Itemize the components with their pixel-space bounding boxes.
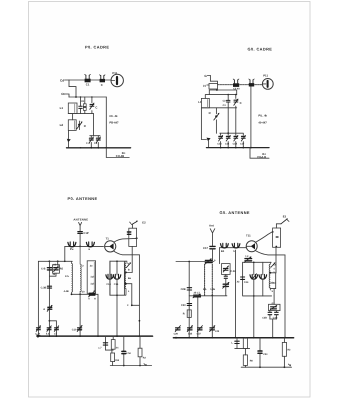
switch arm to E2 (130, 221, 138, 225)
wire to filter (273, 289, 275, 296)
svg-text:E2: E2 (283, 216, 287, 219)
capacitor C31 (275, 311, 279, 319)
svg-text:C37: C37 (197, 332, 202, 335)
node R3 (136, 237, 138, 239)
svg-text:4.4B: 4.4B (64, 290, 69, 293)
capacitor C13 (padder) (234, 133, 238, 147)
svg-text:C: C (95, 106, 97, 110)
svg-text:P11: P11 (263, 73, 268, 77)
terminal Ct (61, 92, 69, 97)
capacitor C24 (trimmer to bus) (36, 325, 41, 331)
wire under box (209, 89, 236, 95)
resistor R9 (187, 310, 191, 318)
node bus2d (211, 337, 213, 339)
capacitor C30 (268, 311, 272, 319)
inductor L3 (201, 98, 209, 107)
capacitor C7 (trimmer) (233, 79, 239, 87)
node gang1 (116, 260, 118, 262)
wire rc join (106, 350, 114, 353)
svg-text:CH.4B: CH.4B (116, 154, 124, 158)
svg-text:R: R (209, 111, 211, 115)
battery cell B1 (122, 336, 126, 365)
svg-text:C2B: C2B (181, 288, 186, 291)
node R8 bottom (275, 246, 277, 248)
wire comp bottom (201, 107, 236, 109)
svg-text:1u5: 1u5 (90, 275, 95, 278)
wire gang drop (219, 248, 221, 264)
node B (80, 96, 82, 98)
wire tube bottom curve (255, 251, 285, 255)
node m3 (259, 366, 261, 368)
wire right vertical (105, 97, 107, 148)
wire caps join to bus (270, 319, 277, 338)
resistor R12 (282, 338, 286, 367)
capacitor C9 (226, 95, 230, 108)
capacitor C17 (blob) (47, 268, 51, 270)
node m4 (284, 366, 286, 368)
node busE (139, 335, 141, 337)
svg-text:C1P: C1P (83, 232, 88, 235)
node cb3 (211, 295, 213, 297)
capacitor C45 (235, 341, 239, 343)
svg-text:C24: C24 (244, 281, 249, 284)
capacitor C22 (trimmer dark) (89, 290, 96, 296)
wire drop from anode line (126, 246, 132, 272)
terminal E2 (ground lug) (207, 138, 211, 142)
wire mid-left vertical (48, 261, 50, 336)
node bus6 (227, 147, 229, 149)
node cb1 (71, 293, 73, 295)
svg-text:C3B: C3B (262, 317, 267, 320)
node R8 (272, 231, 274, 233)
battery cell B2 (258, 338, 262, 368)
svg-text:Ch. 4k: Ch. 4k (109, 115, 118, 118)
variable capacitor CV2 (86, 242, 94, 247)
wire coil bottoms 2 (189, 295, 227, 297)
svg-text:C: C (240, 101, 242, 105)
resistor R10 (243, 338, 247, 349)
wire decoupling drop (105, 336, 107, 350)
svg-text:G0. CADRE: G0. CADRE (248, 46, 273, 51)
wire terminal to bus (68, 142, 70, 148)
node D (216, 89, 218, 91)
inductor L1 (68, 103, 77, 114)
svg-text:CGA.B: CGA.B (257, 155, 266, 159)
resistor R5 (111, 336, 115, 349)
node bus8 (242, 147, 244, 149)
svg-text:C40: C40 (215, 330, 220, 333)
wire varco drop to bus (235, 250, 237, 338)
svg-text:Bo: Bo (128, 277, 132, 280)
resistor R11 (243, 355, 247, 366)
inductor L5 (wavy) (72, 261, 73, 294)
wire corner from gang (64, 246, 66, 261)
tube T1 (105, 241, 116, 252)
capacitor C10 (trimmer) (234, 95, 238, 108)
resistor R7 (138, 336, 142, 365)
resistor R6 (111, 353, 115, 362)
node bus5 (220, 147, 222, 149)
capacitor C43 (224, 274, 227, 278)
switch trimmer box C42 (222, 264, 231, 275)
node link (131, 304, 133, 306)
node coil tap1 (125, 271, 127, 273)
svg-text:17u: 17u (65, 275, 70, 278)
node bus4 (105, 147, 107, 149)
capacitor C11 (padder) (219, 133, 223, 147)
minus line 2 (241, 366, 291, 368)
wire padder top (220, 108, 243, 133)
svg-text:52L: 52L (203, 288, 208, 291)
inductor L10 antenna (dashed) (211, 264, 213, 296)
node C (91, 96, 93, 98)
potentiometer arrow on coil (126, 262, 131, 267)
svg-text:C1: C1 (86, 83, 90, 87)
wire gang mid vertical 1 (253, 262, 255, 337)
capacitor C3 (79, 97, 82, 114)
transformer box L3 (209, 84, 218, 90)
wire rc join 2 (235, 349, 250, 355)
gang box frame 2 (243, 262, 272, 296)
tube T11 (246, 241, 257, 252)
node bus2g (272, 337, 274, 339)
svg-text:P11: P11 (112, 71, 117, 75)
potentiometer R3 (214, 108, 220, 134)
node bus3 (97, 147, 99, 149)
svg-text:L1: L1 (60, 106, 64, 110)
svg-text:17H: 17H (126, 352, 131, 355)
node m2 (139, 365, 141, 367)
node bus7 (235, 147, 237, 149)
capacitor C15 (antenna coupling) (78, 232, 82, 247)
svg-text:ANTENNE: ANTENNE (73, 218, 88, 222)
svg-text:R: R (84, 124, 86, 128)
ground bus (37, 335, 153, 337)
svg-text:Ant: Ant (209, 224, 214, 228)
node bus2f (253, 337, 255, 339)
svg-text:Ct: Ct (61, 92, 64, 96)
node E (227, 94, 229, 96)
wire to minus line 2 (244, 365, 246, 367)
node lt (188, 261, 190, 263)
resistor R8 (273, 228, 281, 247)
wire to minus line (112, 362, 114, 366)
switch arm to E (281, 218, 289, 223)
wire left down (201, 108, 206, 140)
svg-text:C-B: C-B (41, 268, 46, 271)
capacitor C12 (padder) (226, 133, 230, 147)
capacitor C33 (187, 304, 191, 306)
capacitor C16 (127, 232, 130, 234)
wire under L1 (68, 113, 93, 115)
node tap2 (125, 283, 127, 285)
potentiometer R2 (77, 121, 83, 130)
capacitor C4 (trimmer) (90, 97, 94, 114)
svg-text:40-447: 40-447 (258, 122, 267, 125)
capacitor C41 (trimmer left) (175, 326, 180, 332)
capacitor C5 (padder) (89, 136, 93, 148)
resistor R1 (83, 97, 86, 114)
node gang2 (116, 294, 118, 296)
capacitor C23 (trimmer) (77, 325, 82, 331)
node V140b (139, 320, 141, 322)
svg-text:L2: L2 (60, 123, 64, 127)
node busD (116, 335, 118, 337)
svg-text:25 C7: 25 C7 (194, 292, 201, 295)
capacitor C2 (trimmer) (100, 75, 105, 83)
svg-text:R: R (183, 312, 185, 315)
svg-text:C17: C17 (203, 247, 208, 250)
terminal H (203, 84, 209, 88)
capacitor C44 (dark trimmer) (223, 278, 230, 295)
svg-text:P0. ANTENNE: P0. ANTENNE (68, 196, 98, 201)
node jog (49, 320, 51, 322)
wire tube bottom to V140 (114, 251, 140, 255)
wire gang mid vertical to bus (116, 295, 118, 336)
svg-text:A: A (43, 308, 45, 311)
wire coil4 tap2 (270, 282, 275, 284)
wire R4 to switch (131, 225, 133, 228)
capacitor C14 (padder) (241, 133, 245, 147)
variable capacitor CV4 (113, 261, 121, 295)
wire far left vertical (37, 261, 39, 336)
svg-text:C.3: C.3 (86, 142, 90, 145)
inductor L8 (wavy) (269, 262, 270, 290)
wire jog right (49, 321, 56, 336)
svg-text:C: C (101, 83, 103, 87)
minus line (110, 365, 151, 367)
wire mid column (188, 262, 190, 338)
svg-text:C34: C34 (263, 353, 268, 356)
node busC (79, 335, 81, 337)
node bus1 (80, 147, 82, 149)
inductor L2 (68, 120, 76, 131)
node L1a (49, 260, 51, 262)
variable capacitor CV3 (106, 261, 114, 295)
inductor L9 (dashed) (204, 264, 206, 296)
terminal minus 2 (288, 364, 291, 366)
node bus9 (250, 147, 252, 149)
node bus2e (235, 337, 237, 339)
svg-text:C.24: C.24 (35, 332, 41, 335)
wire antenna to bus 2 (211, 296, 213, 338)
svg-text:G0. ANTENNE: G0. ANTENNE (220, 210, 250, 215)
svg-text:1u5: 1u5 (90, 283, 95, 286)
svg-text:PB-447: PB-447 (109, 121, 119, 124)
svg-text:P0. CADRE: P0. CADRE (85, 45, 109, 50)
svg-text:1.2H: 1.2H (210, 288, 215, 291)
node bus2 (90, 147, 92, 149)
variable capacitor CV6 (232, 243, 240, 248)
node F (235, 94, 237, 96)
tube P11 (111, 74, 123, 86)
svg-text:C10: C10 (217, 142, 222, 145)
svg-text:C1B: C1B (233, 142, 238, 145)
svg-text:E2: E2 (142, 221, 146, 225)
variable capacitor CV8 (259, 274, 267, 279)
wire jog Cd to node A (69, 80, 76, 97)
variable capacitor CV5 (221, 243, 229, 248)
inductor L4 (wavy) (125, 261, 126, 295)
variable capacitor CV7 (250, 274, 258, 279)
node bus2a (175, 337, 177, 339)
capacitor C1 (trimmer) (85, 74, 91, 82)
capacitor C40 (trimmer) (210, 325, 216, 331)
inductor L6 antenna coil (wavy) (80, 246, 81, 294)
capacitor C32 (187, 288, 191, 290)
capacitor C28 (trimmer on frame top) (244, 257, 251, 263)
capacitor C19 (trimmer) (47, 305, 52, 311)
wire lug to bus (208, 141, 210, 148)
terminal Cd (60, 79, 69, 83)
wire main to tube (218, 84, 263, 86)
capacitor C8 (trimmer) (249, 79, 254, 87)
node coil4 tap1 (269, 272, 271, 274)
wire far right vertical (284, 255, 286, 338)
node bus2b (188, 337, 190, 339)
wire comp top (205, 95, 236, 99)
bus wire (67, 147, 131, 149)
svg-text:L3: L3 (198, 100, 202, 104)
capacitor C18 (47, 286, 51, 288)
node L1c (64, 261, 66, 263)
inductor L7 box (87, 261, 95, 294)
capacitor C35 (trimmer) (187, 325, 193, 331)
svg-text:R.B: R.B (115, 359, 119, 362)
node busB (56, 335, 58, 337)
svg-text:C.3B: C.3B (41, 287, 47, 290)
node L1b (57, 260, 59, 262)
switch S2 (dark, on wire) (193, 294, 201, 298)
wire antenna line to bus (79, 294, 81, 336)
wire R8 bottom vertical (270, 247, 276, 288)
terminal E (ground lug) (67, 139, 71, 142)
wire B+ tail (250, 148, 269, 159)
switch box S1 (49, 261, 59, 276)
wire L1 to L2 (72, 114, 74, 120)
wire left top (38, 260, 72, 262)
wire coil tap2 (126, 284, 140, 306)
wire S2 to bus (197, 298, 199, 338)
wire grid top (69, 79, 111, 81)
capacitor C29 (241, 277, 245, 279)
node A (75, 96, 77, 98)
wire right vertical (250, 87, 252, 148)
wire tube top to R8 (255, 232, 272, 243)
capacitor C21 (trimmer) (54, 326, 58, 332)
variable capacitor CV1 (68, 242, 76, 247)
node g2 (253, 295, 255, 297)
wire V140 vertical (138, 255, 140, 336)
svg-text:B: B (128, 268, 130, 271)
wire lower horizontal (69, 96, 106, 98)
node bus2c (197, 337, 199, 339)
resistor R4 (129, 228, 137, 246)
gang box frame (110, 261, 127, 295)
antenna symbol (79, 222, 82, 231)
ground bus 2 (173, 337, 293, 339)
svg-text:C10: C10 (72, 329, 77, 332)
svg-text:C35: C35 (188, 332, 193, 335)
svg-text:Pu: Pu (70, 248, 74, 251)
node g1 (253, 262, 255, 264)
wire L2 to terminal (68, 130, 70, 138)
svg-text:C17: C17 (240, 142, 245, 145)
svg-text:C14: C14 (106, 283, 111, 286)
wire coil bottoms (72, 294, 99, 336)
wire left top (176, 261, 214, 263)
svg-text:C12: C12 (225, 142, 230, 145)
svg-text:T11: T11 (246, 234, 251, 238)
bus wire (207, 147, 270, 149)
node bus left end (36, 335, 40, 338)
terminal G (204, 74, 210, 78)
wire mid (90, 114, 100, 136)
capacitor C25 (103, 343, 107, 345)
capacitor C26 (antenna coupling) (210, 246, 215, 260)
node busA (49, 335, 51, 337)
node m1 (123, 365, 125, 367)
capacitor C27 (series trimmer dark) (205, 258, 213, 264)
tube P12 (262, 79, 273, 90)
antenna symbol (210, 229, 215, 246)
wire G jog (210, 76, 217, 84)
capacitor C20 (trimmer) (47, 326, 51, 332)
capacitor C6 (padder) (96, 136, 100, 148)
svg-text:H: H (94, 297, 96, 300)
svg-text:C29: C29 (174, 332, 179, 335)
svg-text:T1: T1 (106, 236, 110, 240)
wire gang top (65, 245, 104, 247)
potentiometer arrow on coil4 (271, 262, 276, 267)
svg-text:L.: L. (231, 342, 233, 345)
filter box F1 (269, 296, 281, 311)
wire decoupling drop 2 (236, 338, 238, 349)
svg-text:C15: C15 (114, 283, 119, 286)
wire gang top (220, 247, 246, 249)
node bus2h (284, 337, 286, 339)
svg-text:C33: C33 (181, 304, 186, 307)
wire B+ tail (106, 148, 129, 158)
svg-text:Cd: Cd (60, 79, 64, 83)
wire tube to R3 (114, 238, 137, 242)
wire gang mid vertical 2 (262, 262, 264, 296)
node cb2 (79, 293, 81, 295)
node ant (79, 246, 81, 248)
capacitor C36 (trimmer) (197, 326, 202, 332)
svg-text:PIL. 4k: PIL. 4k (258, 114, 267, 117)
wire R8 top to switch (276, 224, 281, 228)
terminal minus (144, 364, 147, 366)
